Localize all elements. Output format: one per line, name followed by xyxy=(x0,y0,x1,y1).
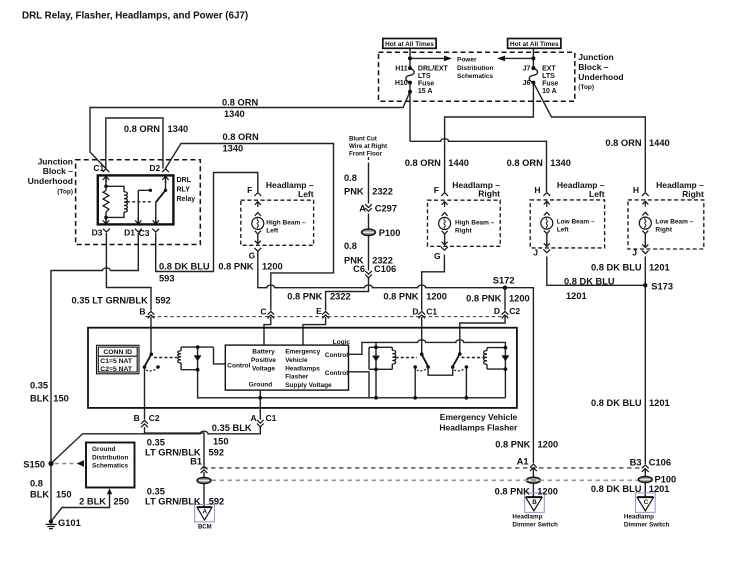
svg-text:Headlamp: Headlamp xyxy=(512,514,542,521)
svg-text:1440: 1440 xyxy=(448,158,469,168)
svg-text:LT GRN/BLK: LT GRN/BLK xyxy=(145,497,201,507)
svg-text:0.8 ORN: 0.8 ORN xyxy=(507,158,543,168)
svg-text:Emergency Vehicle: Emergency Vehicle xyxy=(440,412,518,422)
svg-text:0.8 PNK: 0.8 PNK xyxy=(218,262,253,272)
svg-text:Right: Right xyxy=(655,227,672,234)
svg-text:0.8 ORN: 0.8 ORN xyxy=(605,138,641,148)
svg-text:C: C xyxy=(260,306,266,316)
svg-text:Ground: Ground xyxy=(92,446,115,453)
svg-text:C2: C2 xyxy=(509,306,520,316)
svg-text:1340: 1340 xyxy=(168,124,189,134)
svg-text:0.8 PNK: 0.8 PNK xyxy=(466,294,501,304)
svg-text:0.35 LT GRN/BLK: 0.35 LT GRN/BLK xyxy=(72,295,149,305)
svg-text:C: C xyxy=(644,499,649,506)
svg-text:1340: 1340 xyxy=(550,158,571,168)
svg-text:0.35: 0.35 xyxy=(30,380,48,390)
svg-text:F: F xyxy=(247,185,252,195)
svg-text:C106: C106 xyxy=(374,264,396,274)
svg-text:G: G xyxy=(434,251,441,261)
svg-text:1201: 1201 xyxy=(566,291,587,301)
svg-text:Junction: Junction xyxy=(38,157,73,167)
svg-text:D3: D3 xyxy=(92,228,103,238)
svg-text:0.8 PNK: 0.8 PNK xyxy=(287,291,322,301)
svg-text:S173: S173 xyxy=(651,281,673,291)
svg-text:592: 592 xyxy=(209,447,225,457)
svg-text:Ground: Ground xyxy=(249,381,272,388)
svg-text:DRL: DRL xyxy=(177,177,192,184)
svg-text:Underhood: Underhood xyxy=(578,72,623,82)
svg-text:10 A: 10 A xyxy=(542,88,557,95)
svg-text:592: 592 xyxy=(155,295,171,305)
svg-text:1340: 1340 xyxy=(224,109,245,119)
svg-text:Control: Control xyxy=(227,362,250,369)
svg-text:CONN ID: CONN ID xyxy=(103,349,132,356)
svg-text:Low Beam –: Low Beam – xyxy=(655,219,693,226)
svg-text:J7: J7 xyxy=(523,66,531,73)
svg-text:BLK: BLK xyxy=(30,394,49,404)
svg-text:1200: 1200 xyxy=(426,291,447,301)
svg-text:0.35: 0.35 xyxy=(147,487,165,497)
svg-text:P100: P100 xyxy=(655,475,677,485)
svg-text:A: A xyxy=(250,413,256,423)
svg-text:150: 150 xyxy=(56,490,72,500)
svg-text:E: E xyxy=(316,306,322,316)
svg-text:Left: Left xyxy=(298,189,314,199)
svg-text:H10: H10 xyxy=(395,80,408,87)
svg-text:B: B xyxy=(532,499,537,506)
svg-text:0.8 DK BLU: 0.8 DK BLU xyxy=(591,398,642,408)
svg-text:C1: C1 xyxy=(266,413,277,423)
svg-text:Junction: Junction xyxy=(578,52,613,62)
svg-text:0.8 ORN: 0.8 ORN xyxy=(405,158,441,168)
svg-text:B3: B3 xyxy=(630,457,642,467)
svg-text:RLY: RLY xyxy=(177,186,191,193)
svg-text:BCM: BCM xyxy=(198,524,212,530)
svg-text:C106: C106 xyxy=(649,457,671,467)
svg-text:DRL/EXT: DRL/EXT xyxy=(418,65,449,72)
svg-text:Flasher: Flasher xyxy=(285,374,309,381)
svg-text:Blunt Cut: Blunt Cut xyxy=(349,136,377,143)
svg-text:0.8 PNK: 0.8 PNK xyxy=(383,291,418,301)
svg-text:Control: Control xyxy=(325,370,348,377)
svg-text:Control: Control xyxy=(325,352,348,359)
svg-text:15 A: 15 A xyxy=(418,88,433,95)
svg-text:1201: 1201 xyxy=(649,398,670,408)
svg-text:H: H xyxy=(534,185,540,195)
svg-text:Vehicle: Vehicle xyxy=(285,357,308,364)
svg-text:B: B xyxy=(134,413,140,423)
svg-text:A: A xyxy=(359,204,366,214)
svg-text:D: D xyxy=(494,306,500,316)
svg-text:2322: 2322 xyxy=(372,186,393,196)
svg-text:592: 592 xyxy=(209,497,225,507)
svg-text:D: D xyxy=(412,306,418,316)
svg-text:0.35: 0.35 xyxy=(147,437,165,447)
svg-text:D1: D1 xyxy=(124,228,135,238)
svg-text:Emergency: Emergency xyxy=(285,348,320,355)
svg-text:2322: 2322 xyxy=(330,291,351,301)
svg-text:Front Floor: Front Floor xyxy=(349,151,383,158)
svg-text:LTS: LTS xyxy=(542,73,555,80)
svg-text:P100: P100 xyxy=(379,228,401,238)
svg-text:Right: Right xyxy=(682,189,704,199)
svg-text:Battery: Battery xyxy=(252,348,275,355)
svg-text:0.8 PNK: 0.8 PNK xyxy=(495,486,530,496)
svg-text:Right: Right xyxy=(478,189,500,199)
svg-text:LTS: LTS xyxy=(418,73,431,80)
svg-text:Voltage: Voltage xyxy=(252,365,275,372)
svg-text:C1=5 NAT: C1=5 NAT xyxy=(100,358,133,365)
svg-text:0.8 ORN: 0.8 ORN xyxy=(223,132,259,142)
svg-text:0.35 BLK: 0.35 BLK xyxy=(212,423,252,433)
svg-text:0.8: 0.8 xyxy=(344,173,357,183)
svg-text:B: B xyxy=(139,306,145,316)
svg-text:0.8 ORN: 0.8 ORN xyxy=(124,124,160,134)
svg-text:C1: C1 xyxy=(93,163,104,173)
svg-text:Positive: Positive xyxy=(251,357,276,364)
svg-text:D2: D2 xyxy=(149,163,160,173)
svg-text:Left: Left xyxy=(589,189,605,199)
svg-text:Wire at Right: Wire at Right xyxy=(349,143,387,150)
svg-text:B1: B1 xyxy=(190,456,202,466)
svg-text:A1: A1 xyxy=(517,457,529,467)
svg-text:J: J xyxy=(533,248,538,258)
svg-text:Block –: Block – xyxy=(43,166,74,176)
svg-text:H11: H11 xyxy=(395,66,408,73)
svg-text:C3: C3 xyxy=(139,228,150,238)
svg-text:1201: 1201 xyxy=(649,263,670,273)
svg-text:PNK: PNK xyxy=(344,186,364,196)
svg-text:0.8: 0.8 xyxy=(30,479,43,489)
svg-text:Fuse: Fuse xyxy=(542,80,558,87)
svg-text:Headlamps Flasher: Headlamps Flasher xyxy=(439,422,518,432)
svg-text:2 BLK: 2 BLK xyxy=(79,496,106,506)
svg-text:DRL Relay, Flasher, Headlamps,: DRL Relay, Flasher, Headlamps, and Power… xyxy=(22,10,248,21)
svg-text:Power: Power xyxy=(457,57,477,64)
svg-text:Left: Left xyxy=(557,227,570,234)
svg-text:Logic: Logic xyxy=(333,339,351,346)
svg-text:Supply Voltage: Supply Voltage xyxy=(285,382,332,389)
svg-text:Distribution: Distribution xyxy=(457,65,493,72)
svg-text:0.8 DK BLU: 0.8 DK BLU xyxy=(591,484,642,494)
svg-text:EXT: EXT xyxy=(542,65,556,72)
svg-text:1200: 1200 xyxy=(509,294,530,304)
svg-text:150: 150 xyxy=(213,437,229,447)
svg-text:0.8 ORN: 0.8 ORN xyxy=(222,97,258,107)
svg-text:Distribution: Distribution xyxy=(92,454,128,461)
svg-text:Relay: Relay xyxy=(177,196,196,203)
svg-text:1200: 1200 xyxy=(537,486,558,496)
svg-text:1340: 1340 xyxy=(223,144,244,154)
svg-text:J: J xyxy=(632,248,637,258)
svg-text:Underhood: Underhood xyxy=(28,176,73,186)
svg-text:Headlamps: Headlamps xyxy=(285,365,320,372)
svg-text:S150: S150 xyxy=(23,460,45,470)
svg-text:F: F xyxy=(434,185,439,195)
svg-text:1200: 1200 xyxy=(538,439,559,449)
svg-text:C6: C6 xyxy=(353,264,365,274)
svg-text:A: A xyxy=(203,509,208,516)
svg-text:J6: J6 xyxy=(523,80,531,87)
svg-text:Right: Right xyxy=(455,227,472,234)
svg-text:Fuse: Fuse xyxy=(418,80,434,87)
svg-text:G101: G101 xyxy=(58,518,81,528)
svg-text:High Beam –: High Beam – xyxy=(455,219,495,226)
svg-text:G: G xyxy=(249,250,256,260)
svg-text:BLK: BLK xyxy=(30,490,49,500)
svg-text:Dimmer Switch: Dimmer Switch xyxy=(512,522,558,529)
svg-text:Low Beam –: Low Beam – xyxy=(557,219,595,226)
svg-text:C297: C297 xyxy=(375,204,397,214)
svg-text:High Beam –: High Beam – xyxy=(266,219,306,226)
svg-text:Hot at All Times: Hot at All Times xyxy=(385,41,434,48)
svg-text:1201: 1201 xyxy=(649,484,670,494)
svg-text:C1: C1 xyxy=(426,306,437,316)
svg-text:H: H xyxy=(633,185,639,195)
svg-text:Headlamp: Headlamp xyxy=(624,514,654,521)
svg-text:Left: Left xyxy=(266,227,279,234)
svg-text:Schematics: Schematics xyxy=(457,73,494,80)
svg-text:(Top): (Top) xyxy=(57,189,73,196)
svg-text:0.8: 0.8 xyxy=(344,241,357,251)
svg-text:Hot at All Times: Hot at All Times xyxy=(510,41,559,48)
svg-text:Schematics: Schematics xyxy=(92,463,129,470)
svg-text:1440: 1440 xyxy=(649,138,670,148)
svg-text:S172: S172 xyxy=(493,275,515,285)
svg-text:1200: 1200 xyxy=(262,262,283,272)
svg-text:150: 150 xyxy=(53,394,69,404)
svg-text:250: 250 xyxy=(114,496,130,506)
svg-text:C2: C2 xyxy=(149,413,160,423)
svg-text:0.8 DK BLU: 0.8 DK BLU xyxy=(591,263,642,273)
svg-text:593: 593 xyxy=(159,274,175,284)
svg-text:Dimmer Switch: Dimmer Switch xyxy=(624,522,670,529)
svg-text:0.8 DK BLU: 0.8 DK BLU xyxy=(159,262,210,272)
svg-text:0.8 DK BLU: 0.8 DK BLU xyxy=(564,277,615,287)
svg-text:C2=5 NAT: C2=5 NAT xyxy=(100,366,133,373)
svg-text:0.8 PNK: 0.8 PNK xyxy=(495,439,530,449)
svg-text:Block –: Block – xyxy=(578,62,609,72)
svg-text:(Top): (Top) xyxy=(578,84,594,91)
